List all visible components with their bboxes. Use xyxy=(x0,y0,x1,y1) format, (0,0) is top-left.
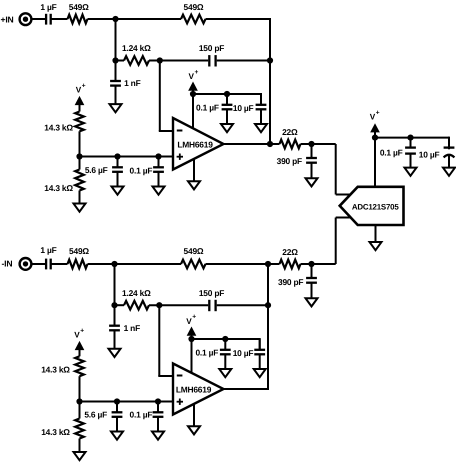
svg-text:LMH6619: LMH6619 xyxy=(177,139,213,149)
wire (op-amp ground pin) xyxy=(193,404,195,427)
label V+ (ADC supply) xyxy=(370,109,380,121)
capacitor C13 1 nF (bottom) xyxy=(109,305,120,349)
ground (under C15) xyxy=(152,432,164,440)
ground (bottom bias) xyxy=(74,452,86,460)
input connector J1 (+IN) xyxy=(20,13,32,25)
wire xyxy=(270,143,280,145)
label 1 nF xyxy=(124,78,141,88)
wire (bottom op-amp output) xyxy=(224,388,270,390)
supply arrow V+ (top op-amp) xyxy=(189,83,197,94)
label 0.1 uF xyxy=(130,165,153,175)
svg-text:549Ω: 549Ω xyxy=(184,246,204,256)
label 0.1 uF xyxy=(130,410,153,420)
label 0.1 uF xyxy=(380,148,403,158)
resistor R2 549 ohm (top feedback) xyxy=(181,15,206,24)
ground (under C9) xyxy=(405,168,417,176)
op-amp U1 LMH6619 (top) xyxy=(173,118,224,170)
wire xyxy=(301,143,336,145)
resistor R5 14.3 kohm (top lower bias) xyxy=(75,170,84,191)
op-amp plus sign xyxy=(177,399,183,405)
capacitor C1 1 uF (series input, top) xyxy=(46,14,51,25)
svg-text:390 pF: 390 pF xyxy=(277,156,302,166)
capacitor C16 0.1 uF (bottom op-amp supply) xyxy=(220,339,231,369)
capacitor C17 10 uF (bottom op-amp supply) xyxy=(254,339,265,369)
op-amp minus sign xyxy=(177,375,183,377)
wire xyxy=(268,263,280,265)
wire xyxy=(115,304,125,306)
node xyxy=(111,302,117,308)
label V+ (bottom bias supply) xyxy=(74,327,84,339)
wire xyxy=(51,263,68,265)
ground (under C16) xyxy=(219,369,231,377)
ground (top bias) xyxy=(74,204,86,212)
svg-text:0.1 µF: 0.1 µF xyxy=(195,348,218,358)
label 150 pF xyxy=(199,288,224,298)
node (feedback junction) xyxy=(267,57,273,63)
supply arrow V+ (ADC) xyxy=(371,124,379,137)
resistor R8 549 ohm (bottom feedback) xyxy=(181,260,206,269)
capacitor C9 0.1 uF (ADC) xyxy=(405,138,416,168)
ground (top op-amp) xyxy=(188,181,200,189)
label 22 ohm xyxy=(282,127,298,137)
capacitor C18 390 pF (bottom) xyxy=(306,264,317,298)
capacitor C5 0.1 uF (top bias) xyxy=(153,157,164,187)
capacitor C2 150 pF (top feedback) xyxy=(209,55,215,66)
svg-text:150 pF: 150 pF xyxy=(199,43,224,53)
capacitor C14 5.6 uF (bottom) xyxy=(112,402,123,432)
label 549 ohm xyxy=(184,2,204,12)
node A (top input node) xyxy=(112,16,118,22)
label 14.3 kohm xyxy=(41,364,70,374)
svg-text:1.24 kΩ: 1.24 kΩ xyxy=(122,288,151,298)
ground (under C3) xyxy=(110,104,122,112)
wire (decoupling rail) xyxy=(193,93,261,105)
node (top bias node) xyxy=(76,153,82,159)
op-amp minus sign xyxy=(177,130,183,132)
wire (to inverting input) xyxy=(158,305,173,376)
svg-text:10 µF: 10 µF xyxy=(419,150,440,160)
node (top op-amp supply junction) xyxy=(190,91,196,97)
label 5.6 uF xyxy=(84,410,107,420)
capacitor C6 0.1 uF (top op-amp supply) xyxy=(222,94,233,124)
label 1.24 kohm xyxy=(122,43,151,53)
label -IN xyxy=(2,259,13,269)
supply arrow V+ (bottom bias) xyxy=(76,342,84,356)
ground (under C10) xyxy=(443,168,455,176)
wire (op-amp V+ pin) xyxy=(191,339,193,373)
node xyxy=(222,336,228,342)
svg-text:14.3 kΩ: 14.3 kΩ xyxy=(41,364,70,374)
label 390 pF xyxy=(277,156,302,166)
wire xyxy=(79,191,81,204)
svg-text:1.24 kΩ: 1.24 kΩ xyxy=(122,43,151,53)
svg-text:22Ω: 22Ω xyxy=(282,247,298,257)
svg-text:14.3 kΩ: 14.3 kΩ xyxy=(44,123,73,133)
node (bottom RC node) xyxy=(308,261,314,267)
node (bottom inverting input node) xyxy=(156,302,162,308)
node (ADC supply junction) xyxy=(372,135,378,141)
wire xyxy=(217,60,271,62)
resistor R1 549 ohm (top input) xyxy=(68,15,88,24)
op-amp plus sign xyxy=(177,154,183,160)
svg-text:0.1 µF: 0.1 µF xyxy=(130,410,153,420)
wire xyxy=(79,376,81,418)
wire xyxy=(149,60,208,62)
ground (under C6) xyxy=(221,124,233,132)
wire (op-amp ground pin) xyxy=(193,159,195,182)
resistor R4 14.3 kohm (top upper bias) xyxy=(75,112,84,132)
ground (under C17) xyxy=(254,369,266,377)
label 1 uF xyxy=(40,2,56,12)
label 0.1 uF xyxy=(196,103,219,113)
svg-text:ADC121S705: ADC121S705 xyxy=(352,202,400,211)
op-amp U3 LMH6619 (bottom) xyxy=(173,364,224,415)
svg-text:5.6 µF: 5.6 µF xyxy=(85,165,108,175)
capacitor C4 5.6 uF (top) xyxy=(112,157,123,187)
node xyxy=(155,153,161,159)
wire xyxy=(114,264,116,306)
label LMH6619 xyxy=(177,139,213,149)
node (bottom input node) xyxy=(111,261,117,267)
svg-text:22Ω: 22Ω xyxy=(282,127,298,137)
capacitor C15 0.1 uF (bottom bias) xyxy=(153,402,164,432)
svg-text:+: + xyxy=(192,314,196,321)
capacitor C8 390 pF (top) xyxy=(306,144,317,178)
label 10 uF xyxy=(233,103,254,113)
node xyxy=(155,398,161,404)
label 14.3 kohm xyxy=(44,123,73,133)
svg-text:549Ω: 549Ω xyxy=(69,246,89,256)
wire (ADC decoupling rail) xyxy=(375,137,449,150)
capacitor C12 150 pF (bottom feedback) xyxy=(209,300,215,311)
node (bottom op-amp supply junction) xyxy=(188,336,194,342)
ADC U2 ADC121S705 xyxy=(340,187,404,225)
node xyxy=(114,398,120,404)
svg-text:+: + xyxy=(195,69,199,76)
label 22 ohm xyxy=(282,247,298,257)
node (bottom feedback top junction) xyxy=(265,261,271,267)
wire xyxy=(116,60,125,62)
svg-text:-IN: -IN xyxy=(2,259,13,269)
svg-text:+IN: +IN xyxy=(1,14,14,24)
wire xyxy=(115,19,117,61)
svg-text:14.3 kΩ: 14.3 kΩ xyxy=(44,183,73,193)
wire (to inverting input) xyxy=(159,61,173,132)
node (top RC node) xyxy=(308,141,314,147)
node (bottom bias node) xyxy=(76,398,82,404)
label 549 ohm xyxy=(69,246,89,256)
wire (top feedback vertical) xyxy=(269,18,271,144)
capacitor C3 1 nF (top) xyxy=(110,61,121,105)
label 390 pF xyxy=(278,277,303,287)
label LMH6619 xyxy=(176,384,212,394)
svg-text:1 nF: 1 nF xyxy=(124,78,141,88)
wire xyxy=(32,263,46,265)
wire (top op-amp output) xyxy=(224,143,271,145)
label 10 uF xyxy=(419,150,440,160)
svg-text:5.6 µF: 5.6 µF xyxy=(84,410,107,420)
label 10 uF xyxy=(233,348,254,358)
supply arrow V+ (top bias) xyxy=(76,97,84,112)
svg-text:1 µF: 1 µF xyxy=(40,245,56,255)
ground (under C7) xyxy=(255,124,267,132)
svg-text:10 µF: 10 µF xyxy=(233,348,254,358)
svg-text:+: + xyxy=(80,327,84,334)
label 549 ohm xyxy=(184,246,204,256)
input connector J2 (-IN) xyxy=(20,258,32,270)
ground (under C14) xyxy=(111,432,123,440)
wire (op-amp V+ pin) xyxy=(192,94,194,129)
svg-text:0.1 µF: 0.1 µF xyxy=(380,148,403,158)
svg-text:1 nF: 1 nF xyxy=(124,323,141,333)
label 150 pF xyxy=(199,43,224,53)
node (top inverting input node) xyxy=(157,57,163,63)
label 1 nF xyxy=(124,323,141,333)
svg-text:150 pF: 150 pF xyxy=(199,288,224,298)
wire (bottom feedback vertical) xyxy=(267,264,269,389)
resistor R12 22 ohm (bottom) xyxy=(280,260,301,269)
label 14.3 kohm xyxy=(44,183,73,193)
wire xyxy=(217,304,269,306)
svg-text:549Ω: 549Ω xyxy=(184,2,204,12)
node (top output node) xyxy=(267,141,273,147)
ground (ADC) xyxy=(370,242,382,250)
wire xyxy=(206,263,269,265)
resistor R11 14.3 kohm (bottom lower bias) xyxy=(75,419,84,439)
wire (noninverting bias rail) xyxy=(80,156,174,158)
wire (noninverting bias rail) xyxy=(80,401,174,403)
svg-text:10 µF: 10 µF xyxy=(233,103,254,113)
wire (to ADC +input) xyxy=(336,144,351,195)
svg-text:LMH6619: LMH6619 xyxy=(176,384,212,394)
label 1.24 kohm xyxy=(122,288,151,298)
node xyxy=(407,135,413,141)
label ADC121S705 xyxy=(352,202,400,211)
label 1 uF xyxy=(40,245,56,255)
label 0.1 uF xyxy=(195,348,218,358)
label 549 ohm xyxy=(69,2,89,12)
label V+ (top op-amp supply) xyxy=(189,69,199,81)
svg-text:+: + xyxy=(82,82,86,89)
node (top node B) xyxy=(112,57,118,63)
svg-text:0.1 µF: 0.1 µF xyxy=(130,165,153,175)
resistor R3 1.24 kohm (top) xyxy=(124,56,149,65)
node xyxy=(224,91,230,97)
label V+ (bottom op-amp supply) xyxy=(186,314,196,326)
supply arrow V+ (bottom op-amp) xyxy=(188,328,196,339)
wire xyxy=(88,18,182,20)
svg-text:1 µF: 1 µF xyxy=(40,2,56,12)
wire xyxy=(88,263,182,265)
wire (ADC V+ pin) xyxy=(374,138,376,188)
wire xyxy=(301,263,336,265)
wire xyxy=(149,304,208,306)
capacitor C11 1 uF (series input, bottom) xyxy=(46,259,51,270)
svg-text:14.3 kΩ: 14.3 kΩ xyxy=(41,427,70,437)
ground (under C18) xyxy=(306,298,318,306)
label 5.6 uF xyxy=(85,165,108,175)
label V+ (top bias supply) xyxy=(76,82,86,94)
resistor R10 14.3 kohm (bottom upper bias) xyxy=(75,356,84,376)
wire xyxy=(79,439,81,453)
resistor R6 22 ohm (top) xyxy=(280,140,301,149)
capacitor C7 10 uF (top op-amp supply) xyxy=(256,94,267,124)
capacitor C10 10 uF (ADC, polarized) xyxy=(444,138,455,168)
wire xyxy=(51,18,68,20)
wire (decoupling rail) xyxy=(192,338,260,350)
ground (under C5) xyxy=(153,187,165,195)
ground (bottom op-amp) xyxy=(188,426,200,434)
ground (under C4) xyxy=(112,187,124,195)
svg-text:+: + xyxy=(376,109,380,116)
wire xyxy=(206,18,272,20)
svg-text:549Ω: 549Ω xyxy=(69,2,89,12)
resistor R9 1.24 kohm (bottom) xyxy=(124,301,149,310)
ground (under C8) xyxy=(306,178,318,186)
resistor R7 549 ohm (bottom input) xyxy=(68,260,88,269)
svg-text:390 pF: 390 pF xyxy=(278,277,303,287)
svg-text:0.1 µF: 0.1 µF xyxy=(196,103,219,113)
wire xyxy=(79,131,81,169)
wire (to ADC -input) xyxy=(336,218,351,265)
label 14.3 kohm xyxy=(41,427,70,437)
wire xyxy=(32,18,46,20)
node (bottom feedback junction) xyxy=(265,302,271,308)
node xyxy=(114,153,120,159)
wire (ADC ground pin) xyxy=(375,225,377,242)
label +IN xyxy=(1,14,14,24)
ground (under C13) xyxy=(109,349,121,357)
